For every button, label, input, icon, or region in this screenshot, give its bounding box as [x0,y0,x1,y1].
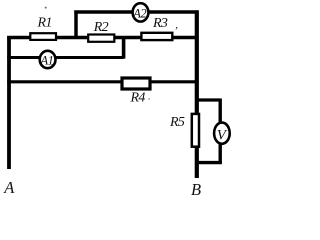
wire: voltmeter branch bottom horizontal [195,161,222,164]
wire: riser from R2/R3 node down to A1 row [122,38,126,59]
wire: left vertical from main row down to terminal A [7,36,11,169]
wire: voltmeter branch top horizontal [195,98,220,101]
svg-text:A2: A2 [132,6,146,20]
ammeter A2 [132,3,148,21]
resistor R4 [122,78,150,106]
svg-text:R3: R3 [152,16,168,31]
wire: right vertical from top row down to R5 [195,10,199,113]
svg-text:R1: R1 [37,16,52,31]
wire: voltmeter branch riser down to voltmeter [218,99,221,125]
wire: right vertical below R5 to terminal B [195,147,199,178]
svg-text:A: A [3,178,15,197]
svg-text:R2: R2 [93,20,109,35]
resistor R1 [30,16,56,40]
wire: ammeter A1 row [7,56,123,59]
wire: main row (R1-R2-R3) from left vertical to right vertical [7,36,198,40]
resistor R3 [141,16,178,40]
resistor R5 [169,114,199,147]
resistor R2 [88,20,114,42]
stray ink dot after R4 label [148,98,150,100]
wire: voltmeter bottom riser [218,143,221,163]
stray ink dot above R1 [45,7,47,9]
svg-text:B: B [191,180,201,197]
wire: top row through ammeter A2 [74,10,198,14]
svg-text:R4: R4 [130,91,146,106]
voltmeter V [214,123,230,144]
ammeter A1 [40,51,56,68]
svg-text:R5: R5 [169,115,185,130]
svg-text:,: , [175,19,178,31]
wire: R4 row from left vertical to right vertical [7,80,198,83]
wire: riser from R1/R2 node up to top row [74,11,78,38]
svg-text:A1: A1 [40,53,54,67]
